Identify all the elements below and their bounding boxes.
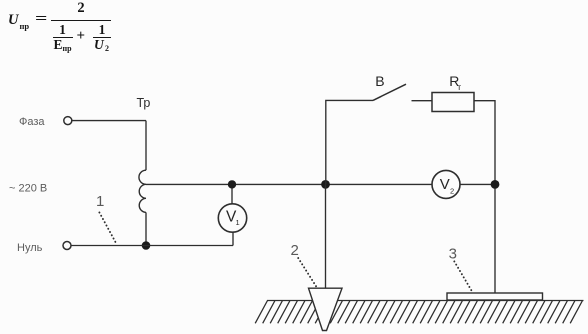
- svg-text:т: т: [457, 82, 461, 92]
- wire transformer bottom vertical: [145, 212, 147, 245]
- leader dotted 3: [454, 261, 473, 293]
- svg-text:2: 2: [450, 186, 454, 195]
- wire main horizontal 220V rail: [146, 183, 495, 185]
- svg-text:В: В: [375, 73, 384, 89]
- svg-text:~ 220 В: ~ 220 В: [9, 183, 47, 195]
- main fraction bar: [51, 20, 111, 21]
- svg-text:1: 1: [96, 193, 104, 210]
- wire probe vertical: [325, 184, 327, 288]
- svg-text:2: 2: [291, 242, 299, 259]
- svg-text:Нуль: Нуль: [17, 242, 43, 254]
- voltmeter V1: [218, 204, 246, 232]
- plate electrode 3: [447, 293, 543, 300]
- leader dotted 1: [99, 213, 116, 245]
- wire transformer top vertical: [145, 121, 147, 171]
- wire switch riser: [326, 100, 373, 184]
- wire V1 bottom stub: [232, 232, 234, 246]
- wire resistor to right riser: [474, 101, 495, 293]
- denominator: 1/E_pr: [53, 22, 72, 38]
- equals sign: [35, 11, 47, 28]
- svg-text:1: 1: [236, 218, 240, 227]
- svg-text:Фаза: Фаза: [19, 116, 45, 128]
- node V2 right junction: [491, 180, 500, 189]
- formula U_pr = 2 / (1/E_pr + 1/U2): [0, 0, 130, 60]
- svg-text:3: 3: [449, 246, 457, 263]
- ground surface line: [267, 300, 584, 302]
- inductor Tr winding: [139, 170, 146, 212]
- U_pr term: [8, 12, 18, 29]
- svg-text:Тр: Тр: [137, 96, 151, 110]
- ground hatching: [255, 301, 582, 324]
- leader dotted 2: [298, 258, 317, 288]
- numerator 2: [51, 0, 111, 17]
- node V1 tap: [228, 180, 236, 188]
- node crossing junction: [321, 180, 330, 189]
- plus sign: [77, 28, 86, 45]
- voltmeter V2: [432, 170, 460, 198]
- probe electrode 2: [309, 288, 343, 330]
- switch B blade: [373, 84, 406, 100]
- terminal null: [63, 242, 71, 250]
- wire V1 top stub: [231, 184, 233, 204]
- denominator: 1/U2: [93, 22, 111, 38]
- wire switch contact stub: [412, 100, 433, 102]
- wire bottom horizontal: [71, 245, 233, 247]
- wire phase horizontal: [72, 120, 146, 122]
- node bottom junction: [142, 241, 151, 250]
- resistor Rt: [432, 93, 474, 112]
- terminal phase: [64, 117, 72, 125]
- svg-text:V: V: [440, 176, 450, 193]
